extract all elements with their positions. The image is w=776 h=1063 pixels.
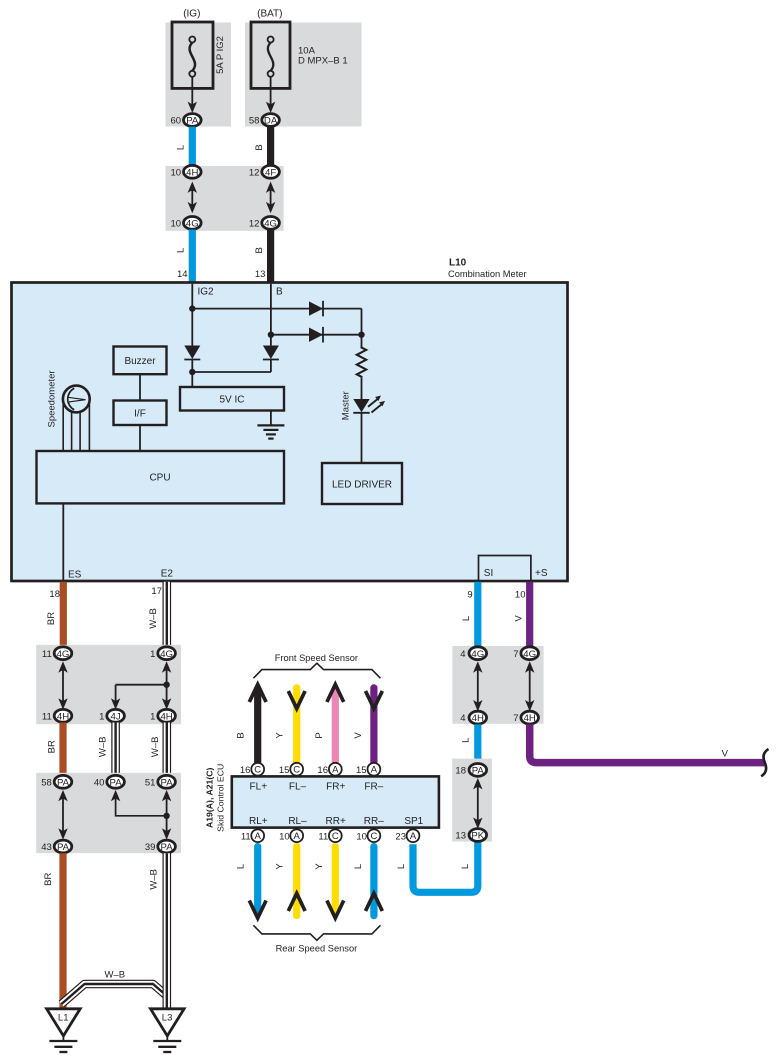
svg-text:SP1: SP1 xyxy=(404,816,423,827)
svg-text:C: C xyxy=(332,831,339,842)
wire LED to LED DRIVER xyxy=(361,413,363,463)
ground (5V IC) xyxy=(257,425,284,438)
svg-text:A: A xyxy=(371,765,378,776)
connector 4G pin 7 xyxy=(521,647,539,660)
svg-text:18: 18 xyxy=(455,766,466,777)
svg-text:BR: BR xyxy=(43,873,54,886)
svg-text:4: 4 xyxy=(460,713,465,724)
connector 4H pin 7 xyxy=(521,711,539,724)
wire L rear-left sensor xyxy=(254,847,261,910)
svg-text:4: 4 xyxy=(460,649,465,660)
svg-text:W–B: W–B xyxy=(148,608,159,629)
resistor R1 xyxy=(357,347,366,378)
svg-text:V: V xyxy=(353,732,364,739)
wire IG2 vertical xyxy=(191,284,193,346)
svg-text:L: L xyxy=(176,248,187,253)
svg-text:4H: 4H xyxy=(186,167,198,178)
svg-text:Rear Speed Sensor: Rear Speed Sensor xyxy=(276,944,358,954)
wire Y front-left sensor return xyxy=(293,688,300,762)
LED DRIVER box xyxy=(322,463,402,504)
svg-text:Front Speed Sensor: Front Speed Sensor xyxy=(275,653,358,663)
svg-text:11: 11 xyxy=(42,649,52,660)
svg-text:11: 11 xyxy=(318,831,328,842)
wire BR (brown) ES to 4G xyxy=(60,582,67,649)
svg-text:(IG): (IG) xyxy=(183,9,200,20)
svg-text:5A P IG2: 5A P IG2 xyxy=(215,36,226,74)
svg-text:40: 40 xyxy=(94,778,105,789)
svg-text:E2: E2 xyxy=(161,569,174,580)
svg-text:1: 1 xyxy=(150,649,155,660)
pin terminal A xyxy=(329,763,342,776)
connector PA pin 39 xyxy=(158,840,176,853)
svg-text:5V IC: 5V IC xyxy=(219,395,244,406)
svg-text:V: V xyxy=(514,615,525,622)
svg-text:58: 58 xyxy=(249,116,260,127)
wire CPU to ES pin xyxy=(62,503,64,580)
connector 4H pin 4 xyxy=(469,711,487,724)
svg-text:L: L xyxy=(235,864,246,869)
pin terminal C xyxy=(251,763,264,776)
svg-text:16: 16 xyxy=(317,765,328,776)
svg-text:B: B xyxy=(276,287,283,298)
svg-text:23: 23 xyxy=(395,831,406,842)
CPU box xyxy=(37,451,285,503)
svg-text:Y: Y xyxy=(275,732,286,739)
svg-text:10: 10 xyxy=(279,831,290,842)
fuse F1 box 5A P IG2 xyxy=(172,22,213,88)
svg-text:4G: 4G xyxy=(471,649,484,660)
svg-text:W–B: W–B xyxy=(97,737,108,758)
svg-text:43: 43 xyxy=(41,842,52,853)
wire fuse F2 to connector DA pin 58 xyxy=(270,77,272,110)
svg-text:PA: PA xyxy=(161,842,174,853)
svg-text:4F: 4F xyxy=(265,167,276,178)
connector PA pin 51 xyxy=(158,775,176,788)
junction arrows 4G-4H purple xyxy=(525,661,534,711)
junction arrows PA58-PA43 xyxy=(58,790,67,840)
svg-text:W–B: W–B xyxy=(148,869,159,890)
gray block connectors 4G/4H right xyxy=(452,646,543,724)
svg-text:BR: BR xyxy=(46,612,57,625)
connector PK pin 13 xyxy=(469,829,487,842)
svg-text:PA: PA xyxy=(472,766,485,777)
junction arrows PA40 merge PA51-PA39 xyxy=(111,790,171,840)
svg-text:15: 15 xyxy=(279,765,290,776)
connector PA pin 43 xyxy=(54,840,72,853)
svg-text:51: 51 xyxy=(145,778,156,789)
wire B (black) 4G to meter pin 13 xyxy=(267,230,274,283)
svg-text:17: 17 xyxy=(151,586,162,597)
wire L SP1 to PK (blue bent) xyxy=(413,842,478,892)
connector DA pin 58 xyxy=(262,114,280,127)
svg-text:W–B: W–B xyxy=(150,737,161,758)
gray block connectors PA lower xyxy=(36,773,181,853)
svg-text:4G: 4G xyxy=(57,649,70,660)
svg-text:IG2: IG2 xyxy=(198,287,215,298)
svg-text:C: C xyxy=(254,765,261,776)
svg-text:+S: +S xyxy=(535,568,548,579)
wire L rear-right sensor return xyxy=(370,847,377,916)
connector PA pin 40 xyxy=(107,775,125,788)
svg-text:P: P xyxy=(314,732,325,738)
svg-text:B: B xyxy=(254,144,265,150)
connector 4F pin 12 xyxy=(262,165,280,178)
svg-text:11: 11 xyxy=(42,712,52,723)
wire B (black) DA to 4F xyxy=(267,127,274,166)
connector 4G pin 10 xyxy=(184,217,202,230)
wire B vertical xyxy=(270,284,272,346)
svg-text:L: L xyxy=(461,616,472,621)
gray block connectors PA/PK xyxy=(452,759,492,842)
svg-text:ES: ES xyxy=(68,570,82,581)
5V IC box xyxy=(180,387,284,411)
svg-text:4G: 4G xyxy=(523,649,536,660)
wire V front-right sensor return xyxy=(370,688,377,762)
wire 5V IC to ground xyxy=(270,411,272,426)
fuse F1 element xyxy=(189,37,195,77)
wire V (purple) +S to 4G xyxy=(526,582,533,649)
brace rear speed sensor xyxy=(253,925,380,940)
wire W-B 4H to PA 51 xyxy=(163,723,172,776)
connector 4G pin 11 xyxy=(54,647,72,660)
svg-text:A: A xyxy=(255,831,262,842)
wire diode cathodes join xyxy=(192,371,271,373)
svg-text:C: C xyxy=(370,831,377,842)
wire break symbol xyxy=(761,749,768,776)
svg-text:11: 11 xyxy=(241,831,251,842)
connector 4H pin 11 xyxy=(54,709,72,722)
connector PA pin 60 xyxy=(184,114,202,127)
junction arrows 4G-4H blue xyxy=(473,661,482,711)
node junction dot resistor top xyxy=(358,332,364,338)
svg-text:60: 60 xyxy=(171,116,182,127)
svg-text:Buzzer: Buzzer xyxy=(124,356,156,367)
ground point L3 triangle xyxy=(151,1009,185,1036)
svg-text:I/F: I/F xyxy=(134,408,146,419)
combination meter U-L10 box xyxy=(12,283,568,582)
svg-text:39: 39 xyxy=(145,842,156,853)
connector 4J pin 1 xyxy=(107,709,125,722)
wire L (blue) 4H to PA18 xyxy=(474,724,481,763)
svg-text:7: 7 xyxy=(513,713,518,724)
connector 4H pin 10 xyxy=(184,165,202,178)
I/F box xyxy=(114,401,167,426)
svg-text:PA: PA xyxy=(161,777,174,788)
wire B front-left sensor xyxy=(254,689,261,763)
svg-text:9: 9 xyxy=(467,589,472,600)
gray block behind BAT fuse xyxy=(245,23,362,127)
svg-text:4G: 4G xyxy=(186,219,199,230)
wire resistor to LED xyxy=(361,378,363,399)
svg-text:Combination Meter: Combination Meter xyxy=(448,269,527,279)
wire I/F to CPU xyxy=(139,425,141,451)
connector 4G pin 1 xyxy=(158,647,176,660)
wire W-B PA39 to ground L3 xyxy=(163,853,172,1009)
node junction dot IG2 xyxy=(189,305,195,311)
svg-text:1: 1 xyxy=(99,712,104,723)
svg-text:C: C xyxy=(293,765,300,776)
junction arrows 4F-4G xyxy=(266,182,275,214)
pin terminal A (SP1) xyxy=(407,829,420,842)
skid control ECU box A19/A21 xyxy=(232,776,439,827)
svg-text:LED DRIVER: LED DRIVER xyxy=(332,479,392,490)
connector 4G pin 12 xyxy=(262,217,280,230)
wire to diode D1 xyxy=(192,308,361,310)
svg-text:PA: PA xyxy=(110,777,123,788)
svg-text:DA: DA xyxy=(264,116,278,127)
svg-text:Y: Y xyxy=(275,863,286,870)
wire fuse F1 to connector PA pin 60 xyxy=(191,77,193,110)
buzzer box xyxy=(114,347,167,375)
brace front speed sensor xyxy=(253,663,380,678)
svg-text:D MPX–B 1: D MPX–B 1 xyxy=(298,56,348,67)
wire L (blue) 4G to meter pin 14 xyxy=(189,230,196,283)
svg-text:RL+: RL+ xyxy=(249,816,268,827)
wire diode outputs to resistor node xyxy=(361,309,363,347)
svg-text:12: 12 xyxy=(249,167,260,178)
wire W-B E2 to 4G xyxy=(163,582,172,648)
svg-text:4J: 4J xyxy=(111,711,121,722)
diode D3 (down, IG2 branch) xyxy=(184,346,200,373)
svg-text:10: 10 xyxy=(356,831,367,842)
wire into 5V IC xyxy=(191,372,193,387)
junction arrows 4G to 4J/4H branch xyxy=(111,661,171,709)
svg-text:RR+: RR+ xyxy=(326,816,346,827)
svg-text:PA: PA xyxy=(186,116,199,127)
svg-text:L10: L10 xyxy=(449,258,467,269)
fuse F2 box 10A D MPX-B 1 xyxy=(251,22,290,88)
ground symbol L3 xyxy=(166,1036,168,1041)
connector 4G pin 4 xyxy=(469,647,487,660)
gray block junction connectors 4H/4F to 4G xyxy=(166,166,284,231)
svg-text:PA: PA xyxy=(57,777,70,788)
wire W-B 4J to PA 40 xyxy=(111,723,120,776)
svg-text:B: B xyxy=(254,247,265,253)
junction arrows 4H-4G xyxy=(188,182,197,214)
wire Y rear-left sensor return xyxy=(293,847,300,916)
svg-text:10: 10 xyxy=(515,589,526,600)
pin terminal A xyxy=(251,829,264,842)
svg-text:A: A xyxy=(332,765,339,776)
pin terminal A xyxy=(368,763,381,776)
svg-text:Speedometer: Speedometer xyxy=(47,370,58,427)
svg-text:PK: PK xyxy=(471,831,484,842)
svg-text:13: 13 xyxy=(455,831,466,842)
node junction dot 5V IC feed xyxy=(189,369,195,375)
svg-text:SI: SI xyxy=(484,568,493,579)
fuse F2 element xyxy=(268,37,274,77)
pin terminal C xyxy=(290,763,303,776)
wire V (purple) 4H bend to right edge xyxy=(530,724,765,762)
svg-text:4H: 4H xyxy=(160,711,172,722)
wires speedometer to CPU xyxy=(63,401,89,451)
svg-text:FL+: FL+ xyxy=(250,782,268,793)
svg-text:16: 16 xyxy=(240,765,251,776)
svg-text:L1: L1 xyxy=(58,1013,69,1024)
svg-text:4H: 4H xyxy=(57,711,69,722)
LED D5 Master xyxy=(353,396,385,413)
svg-text:Master: Master xyxy=(340,391,351,420)
svg-text:A19(A), A21(C): A19(A), A21(C) xyxy=(205,767,215,828)
svg-text:10: 10 xyxy=(171,219,182,230)
svg-text:FR+: FR+ xyxy=(326,782,345,793)
node junction dot B xyxy=(268,332,274,338)
svg-text:14: 14 xyxy=(177,269,188,280)
ground point L1 triangle xyxy=(47,1009,81,1036)
svg-text:FL–: FL– xyxy=(289,782,307,793)
svg-text:B: B xyxy=(236,732,247,738)
svg-text:L3: L3 xyxy=(162,1013,173,1024)
svg-text:L: L xyxy=(396,864,407,869)
svg-text:(BAT): (BAT) xyxy=(257,9,282,20)
gray block connectors 4G/4J/4H left xyxy=(36,645,181,724)
SI box xyxy=(479,556,531,581)
svg-text:V: V xyxy=(722,749,729,760)
wire buzzer to I/F xyxy=(139,374,141,400)
svg-text:58: 58 xyxy=(41,778,52,789)
wire Y rear-right sensor xyxy=(332,847,339,910)
svg-text:4G: 4G xyxy=(264,219,277,230)
wire BR 4H to PA xyxy=(59,723,66,776)
speedometer gauge xyxy=(63,386,90,413)
ground strap W-B between L1 and L3 xyxy=(62,984,168,1004)
pin terminal A xyxy=(290,829,303,842)
junction arrows PA-PK xyxy=(473,778,482,829)
connector PA pin 58 xyxy=(54,775,72,788)
svg-text:L: L xyxy=(176,145,187,150)
gray block behind IG fuse xyxy=(166,23,232,127)
diode D1 (right pointing, IG2 row) xyxy=(309,301,323,317)
connector PA pin 18 xyxy=(469,764,487,777)
svg-text:1: 1 xyxy=(150,712,155,723)
ground symbol L1 xyxy=(62,1036,64,1041)
svg-text:Y: Y xyxy=(314,863,325,870)
svg-text:7: 7 xyxy=(513,649,518,660)
junction arrows 4G-4H left xyxy=(58,661,67,709)
wire L (blue) PA to 4H xyxy=(189,127,196,166)
svg-text:L: L xyxy=(353,864,364,869)
svg-text:10: 10 xyxy=(171,167,182,178)
svg-text:L: L xyxy=(460,864,471,869)
svg-text:PA: PA xyxy=(57,842,70,853)
svg-text:CPU: CPU xyxy=(149,473,170,484)
wire to diode D2 xyxy=(271,334,362,336)
svg-text:FR–: FR– xyxy=(364,782,383,793)
svg-text:RL–: RL– xyxy=(288,816,307,827)
svg-text:18: 18 xyxy=(49,589,60,600)
svg-text:12: 12 xyxy=(249,219,260,230)
pin terminal C xyxy=(368,829,381,842)
svg-text:4H: 4H xyxy=(472,713,484,724)
wire L (blue) SI to 4G xyxy=(474,582,481,649)
svg-text:L: L xyxy=(461,738,472,743)
diode D4 (down, B branch) xyxy=(263,346,279,373)
svg-text:W–B: W–B xyxy=(105,969,126,980)
svg-text:4H: 4H xyxy=(524,713,536,724)
pin terminal C xyxy=(329,829,342,842)
svg-text:RR–: RR– xyxy=(364,816,384,827)
svg-text:BR: BR xyxy=(46,740,57,753)
connector 4H pin 1 xyxy=(158,709,176,722)
svg-text:13: 13 xyxy=(255,269,266,280)
diode D2 (right pointing, B row) xyxy=(309,327,323,343)
wire BR PA43 to ground L1 xyxy=(59,853,66,1010)
svg-text:15: 15 xyxy=(356,765,367,776)
svg-text:Skid Control ECU: Skid Control ECU xyxy=(215,764,225,832)
svg-text:A: A xyxy=(410,831,417,842)
svg-text:4G: 4G xyxy=(160,649,173,660)
wire P front-right sensor xyxy=(332,689,339,763)
svg-text:A: A xyxy=(294,831,301,842)
